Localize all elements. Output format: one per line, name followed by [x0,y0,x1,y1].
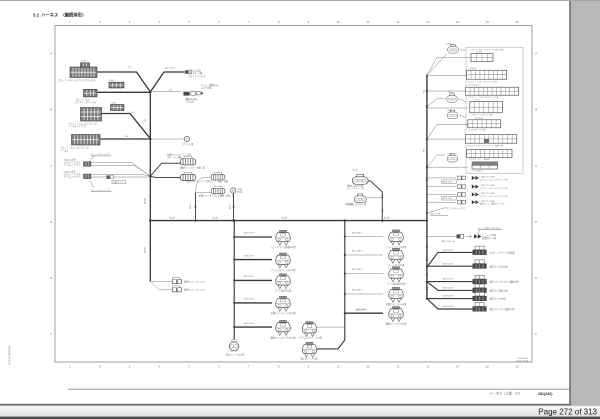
junction tick marks [426,74,429,76]
svg-text:B: B [50,108,52,112]
main horizontal bus [150,220,427,222]
inline module upper [172,279,181,283]
dark inline connector at J1 [183,92,189,96]
right trunk below bus [426,221,428,299]
wire branch from connector A1 [97,72,150,92]
oval connector J3-B [180,172,195,180]
label option connector [112,180,126,184]
svg-text:AVS 0.5B ①: AVS 0.5B ① [165,66,176,69]
label module lower [172,286,179,288]
svg-text:AV-2B: AV-2B [384,216,390,219]
svg-text:14: 14 [456,365,460,369]
svg-text:71-17YH007HD: 71-17YH007HD [8,346,12,365]
trunk bottom branch upper [150,280,172,282]
svg-text:11: 11 [367,20,370,24]
svg-text:B: B [535,108,537,112]
connector A4 body [72,135,101,146]
svg-text:AV-2B: AV-2B [282,216,288,219]
svg-text:AVS 0.5B ①: AVS 0.5B ① [244,254,255,257]
trunk junction blob y213 [426,212,428,214]
svg-text:PTT-10B: PTT-10B [475,118,483,120]
wire curve into oval U [196,177,213,192]
svg-text:281(242): 281(242) [538,392,553,396]
left fan second thin wire [91,166,150,177]
oval connector F2 [473,260,487,269]
pin table T1 [471,54,493,62]
oval connector J3-A [180,157,195,165]
svg-text:CN-11: CN-11 [474,100,479,102]
inline option connector [106,175,109,179]
left bell stub 1 [234,236,272,238]
left fan upper thin wire [91,162,150,176]
left fan lower thin wire [91,174,150,176]
svg-text:AV20B: AV20B [143,246,146,253]
wire from connector A4 to trunk [100,138,150,140]
connector A1 cap [81,63,90,67]
svg-text:CN-06: CN-06 [448,92,454,94]
svg-text:11: 11 [367,365,370,369]
oval connector mid-U [211,173,225,181]
svg-text:CN-07: CN-07 [447,110,453,112]
svg-text:AV-2B: AV-2B [213,216,219,219]
mid bell stub 1 [345,236,383,238]
oval connector F5 [473,292,487,301]
small connector P1 [84,162,91,167]
bell connector B3 [276,274,290,289]
oval connector F6 [473,303,487,312]
svg-text:C: C [535,164,537,168]
label row LR3 [427,194,456,196]
inline connector J1-b [196,92,200,95]
bell connector M1 [389,230,403,245]
connector A3 body [81,108,102,122]
bell connector M2 [389,248,403,263]
round connector R1 [448,45,459,53]
wire harness trunk left vertical [149,92,151,281]
mid bell stub 4 [345,293,383,295]
stub junction marks [233,236,235,238]
wire small round conn 2 [367,197,383,199]
lower trunk tick marks [426,246,429,248]
page footer rule [68,388,569,390]
svg-text:Page 272 of 313: Page 272 of 313 [538,407,597,416]
mid ovals drop vertical [195,193,197,220]
svg-text:AVS 0.5B ①: AVS 0.5B ① [443,249,454,252]
left fan fourth thin wire [91,176,150,178]
svg-text:A: A [535,52,537,56]
pin table T8 [472,162,498,165]
pin table T6 [466,135,517,144]
svg-text:AVS 0.5B ①: AVS 0.5B ① [443,287,454,290]
svg-text:AVS 0.5B ①: AVS 0.5B ① [244,275,255,278]
bell connector M4 [389,287,403,302]
connector A2 cap [109,82,124,88]
right trunk above bus [426,75,428,220]
inline fuse [457,234,460,238]
svg-text:13: 13 [426,20,430,24]
left bell column vertical [233,221,235,340]
round connector 8-pole [352,175,368,185]
mid bell stub 5 thick [345,312,383,314]
page bottom border [0,404,571,406]
svg-text:P05: P05 [423,90,425,93]
leader horizontal y91 [427,90,468,92]
pin table T4 [470,102,503,113]
label row LR1 [427,177,456,179]
svg-text:AVS 0.5B ①: AVS 0.5B ① [352,289,363,292]
oval connector F3 [473,275,487,284]
thick stub to oval B [150,176,181,177]
svg-text:CN-02: CN-02 [109,80,115,82]
bottom dark bar [0,417,600,419]
svg-text:AV08: AV08 [229,204,232,209]
svg-text:C: C [50,164,52,168]
bell connector M5 [389,307,403,322]
svg-text:04-09 D-01-A: 04-09 D-01-A [516,360,528,363]
connector A1 body [70,67,97,78]
fuse arrow connector [474,234,481,239]
svg-text:AVS 0.5B ①: AVS 0.5B ① [244,298,255,301]
svg-text:10: 10 [337,365,341,369]
connector defroster [185,70,188,74]
svg-text:AV20B: AV20B [143,197,146,204]
svg-text:16: 16 [516,365,520,369]
inline module lower [172,288,181,292]
mid bell column vertical [344,221,346,340]
mid bell stub 3 [345,273,383,275]
pin table T5 [468,120,501,128]
thin run right of J1 [150,91,181,93]
mid trunk tail to bottom bell [317,340,345,349]
svg-text:13: 13 [426,365,430,369]
vertical x382 up to round connectors [368,181,382,221]
svg-text:F: F [535,332,537,336]
bell connector B2 [276,253,290,268]
svg-text:AVS 0.5B ①: AVS 0.5B ① [244,232,255,235]
svg-text:D140-00040: D140-00040 [517,358,528,360]
bell connector waterproof terminal [302,342,316,357]
drawing frame [55,26,532,363]
bell connector B1 [276,230,290,245]
round connector mid small [354,194,366,203]
svg-text:CN-03: CN-03 [111,103,117,105]
svg-text:15: 15 [486,20,490,24]
svg-text:F: F [50,332,52,336]
leader horizontal y108 [427,107,468,109]
svg-text:CN-09: CN-09 [447,153,453,155]
svg-text:CN-05: CN-05 [446,44,452,46]
junction dots [149,91,428,314]
fan wire to oval f5 [427,298,473,300]
ring terminal ground [184,136,189,141]
detail box [466,47,523,173]
svg-text:D: D [535,220,537,224]
thick stub to oval A [150,163,181,176]
round connector R3 [447,110,458,118]
label module upper [172,278,179,280]
fuse row wire [427,235,472,237]
drop tick marks [381,196,384,198]
label row LR2 [427,186,456,188]
bell connector doorlock [302,322,316,337]
label row LR4 [427,201,456,203]
small connector P2 [84,174,91,179]
fan wire to oval f2 [427,265,473,267]
left bell stub 5 [234,326,272,328]
ring terminal GND drop [233,193,235,220]
bell connector B4 [276,296,290,311]
inline connector J1-a [191,92,196,96]
fan diag to oval f6 [427,299,473,309]
pin table T2 [467,70,507,79]
oval connector F1 [473,246,487,255]
wire from connector A3 diagonal to trunk [102,114,151,139]
svg-text:E: E [50,276,52,280]
svg-text:P05: P05 [423,149,425,152]
trunk bottom branch lower [150,281,172,290]
svg-text:CN-30: CN-30 [352,170,358,172]
connector A3 cap [111,105,125,111]
oval connector F4 [473,284,487,293]
svg-text:AVS 0.5B ①: AVS 0.5B ① [356,309,367,312]
svg-text:3.2 ハーネス （継続体形）: 3.2 ハーネス （継続体形） [33,12,86,19]
leader horizontal y139 [427,138,468,140]
svg-text:16: 16 [516,20,520,24]
leader horizontal y167 [427,166,468,168]
svg-text:CN-01: CN-01 [81,61,87,63]
connector A2 body [84,89,98,97]
svg-text:CN-09: CN-09 [470,68,476,70]
leader diag to table 5 [427,124,468,139]
left bell stub 4 [234,302,272,304]
svg-text:AVS 0.5B ①: AVS 0.5B ① [352,231,363,234]
svg-text:AVS 0.5B ①: AVS 0.5B ① [244,322,255,325]
leader to table row 1 [427,58,471,76]
left bell stub 2 [234,259,272,261]
svg-text:12: 12 [396,365,400,369]
leader diag to round conn 4 row [427,155,446,167]
svg-text:AVS 0.5B ①: AVS 0.5B ① [443,278,454,281]
fan wire to oval f3 [427,281,473,283]
svg-text:12: 12 [396,20,400,24]
svg-text:15: 15 [486,365,490,369]
svg-text:10: 10 [337,20,341,24]
top hairline [0,0,600,2]
svg-text:AVS 0.5B ①: AVS 0.5B ① [352,268,363,271]
svg-text:CN-08: CN-08 [476,52,482,54]
ring terminal GND [231,188,236,193]
wire branch up-right from junction J1 [150,72,185,92]
round connector R2 [447,94,458,102]
page right border [569,0,571,405]
thin run J2 to ring terminal [150,138,183,140]
pin table T7 [467,150,512,158]
pin table T3 [466,87,519,95]
fan diag to oval f1 [427,252,473,267]
svg-text:AVS 0.5B ①: AVS 0.5B ① [352,250,363,253]
leader diag to round conn 2 [427,99,446,107]
bell connector M3 [389,267,403,282]
leader horizontal y75 [427,74,468,76]
svg-text:A: A [50,52,52,56]
round connector R4 [447,154,458,162]
svg-text:14: 14 [456,20,460,24]
svg-text:ハーネス（上部 2-0: ハーネス（上部 2-0 [490,391,520,396]
bell connector B5 [276,320,290,335]
left bell stub 3 [234,279,272,281]
svg-text:D: D [50,220,52,224]
thin wire to doorlock bell [317,326,345,328]
round connector drain SW [232,340,236,342]
fan diag to oval f4 [427,282,473,291]
wire from connector A2 to J1 [97,91,150,93]
svg-text:AV08: AV08 [189,204,192,209]
svg-text:AVS 0.5B ①: AVS 0.5B ① [443,305,454,308]
svg-text:AV-2B: AV-2B [170,216,176,219]
wire into oval L [196,192,213,194]
svg-text:E: E [535,276,537,280]
leader diag top connector [427,54,447,76]
svg-text:AVS 0.5B ①: AVS 0.5B ① [443,295,454,298]
svg-text:AVS 0.5B ①: AVS 0.5B ① [443,262,454,265]
svg-text:AVS2 0.5B: AVS2 0.5B [443,181,453,184]
svg-text:AVS2 0.5B: AVS2 0.5B [443,197,453,200]
oval connector mid-L [211,186,225,194]
mid bell stub 2 [345,254,383,256]
